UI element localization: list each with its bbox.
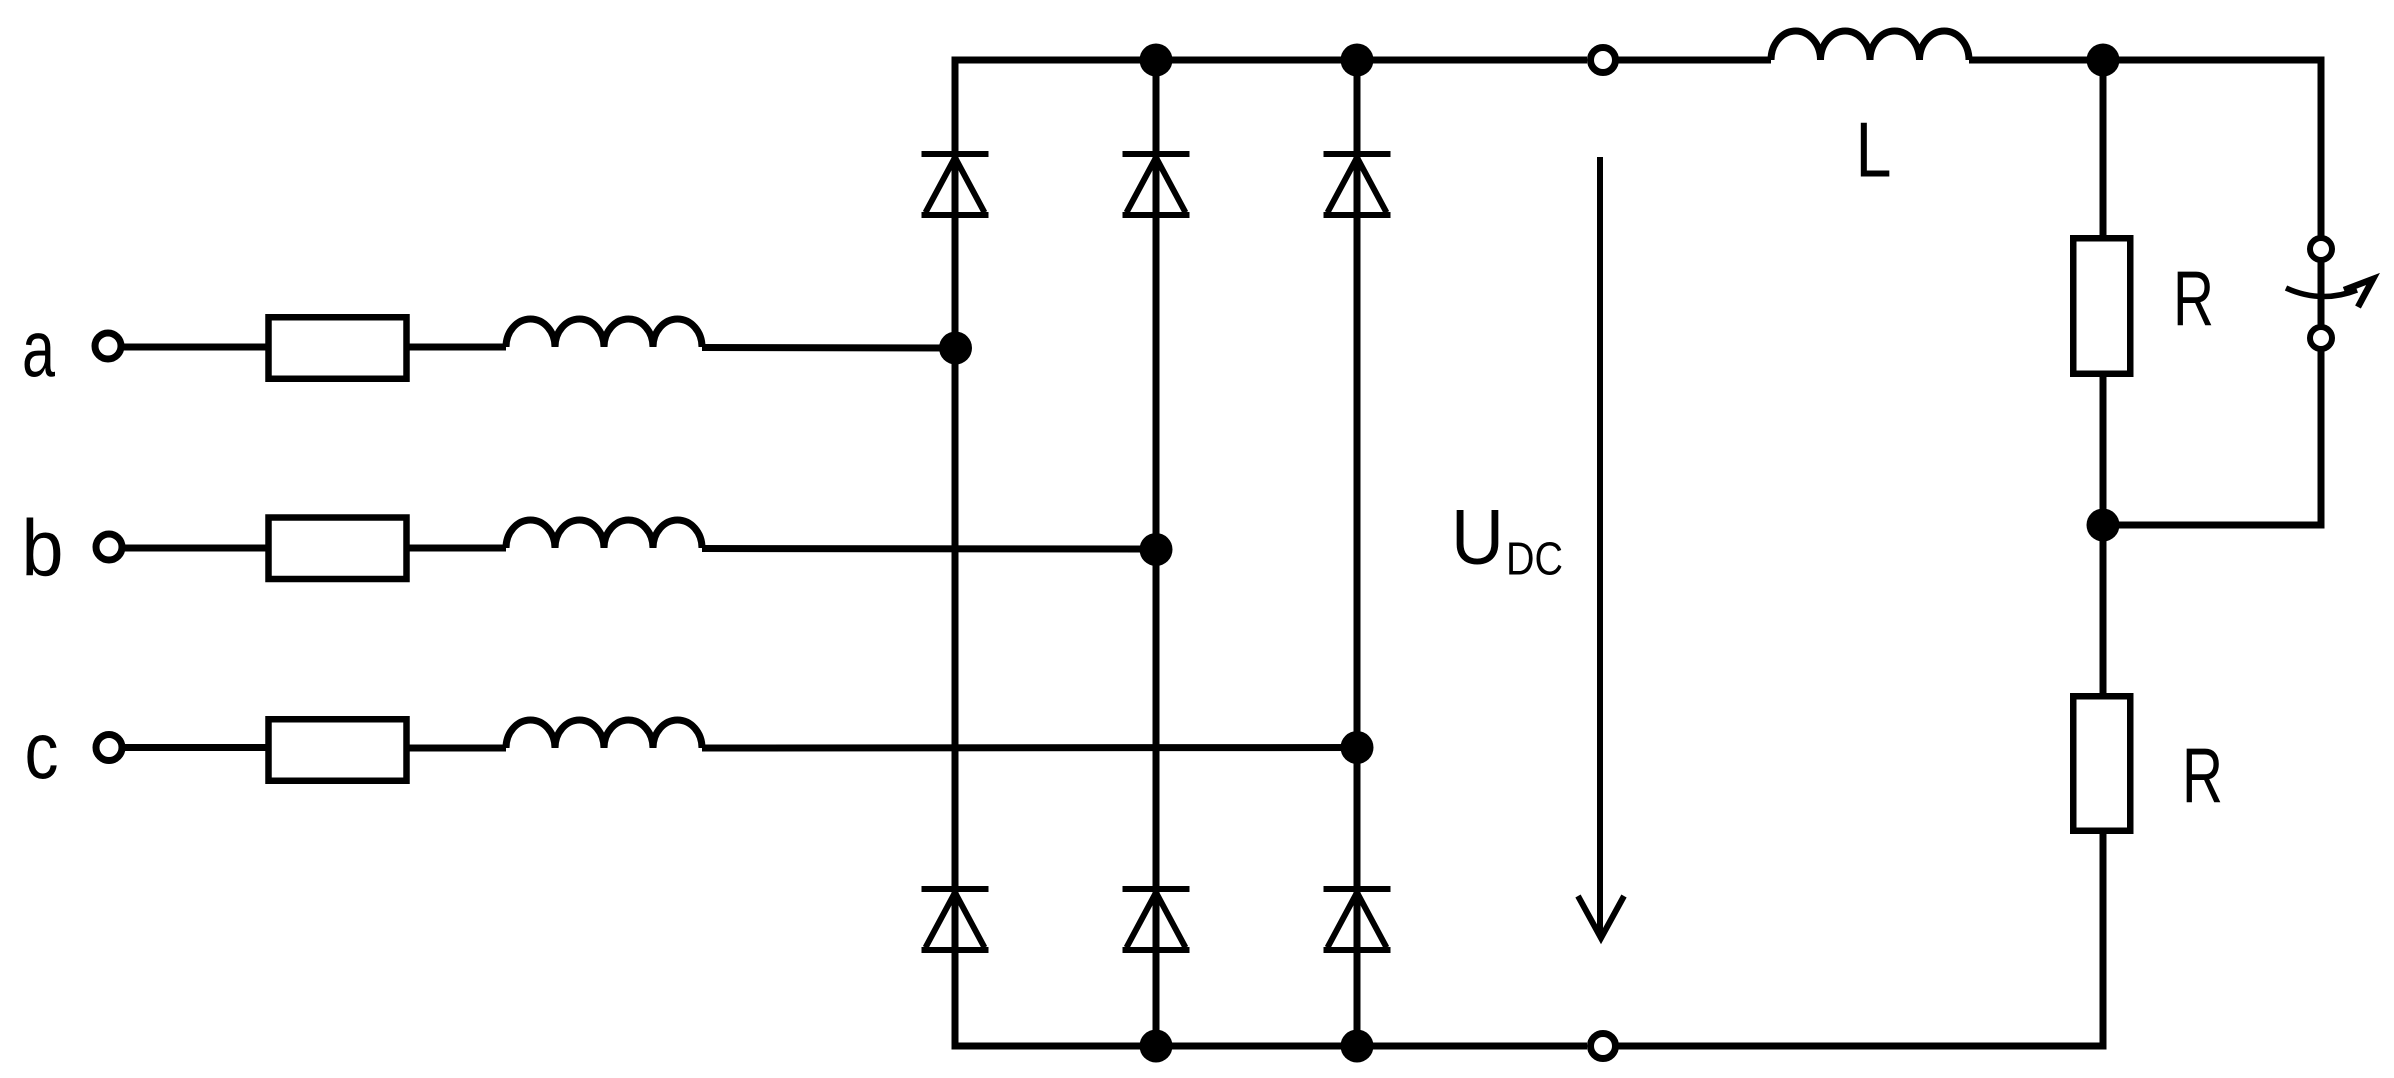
diode D5 — [1324, 154, 1391, 215]
svg-text:R: R — [2182, 732, 2223, 820]
node top rail leg2 — [1140, 44, 1173, 77]
bottom rail wire right — [1615, 1043, 2107, 1050]
node top rail load — [2087, 44, 2120, 77]
wire load bottom — [2100, 834, 2107, 1050]
diode D3 — [1123, 154, 1190, 215]
wire c2 — [407, 745, 506, 752]
diode D1 — [922, 154, 989, 215]
wire b2 — [407, 545, 506, 552]
node c junction — [1341, 731, 1374, 764]
terminal a — [95, 333, 121, 359]
wire load top — [2100, 60, 2107, 235]
switch contact upper — [2310, 238, 2332, 260]
svg-text:a: a — [22, 304, 55, 393]
resistor Rc — [269, 719, 407, 781]
bridge leg 1 wire — [952, 57, 959, 1050]
node load mid junction — [2087, 509, 2120, 542]
diode D6 — [1123, 889, 1190, 950]
terminal DC+ — [1591, 48, 1616, 73]
switch contact lower — [2310, 327, 2332, 349]
resistor Ra — [269, 317, 407, 379]
bridge leg 2 wire — [1153, 60, 1160, 1046]
wire b1 — [123, 545, 269, 552]
svg-text:U: U — [1451, 493, 1504, 581]
diode D2 — [1324, 889, 1391, 950]
node top rail leg3 — [1341, 44, 1374, 77]
resistor R1 — [2073, 238, 2130, 374]
resistor Rb — [269, 518, 407, 580]
node bottom rail leg2 — [1140, 1030, 1173, 1063]
top rail wire left — [952, 57, 1588, 64]
svg-text:c: c — [25, 706, 59, 795]
wire a2 — [407, 344, 506, 351]
wire c3 — [702, 744, 1357, 752]
arrow U_DC — [1578, 157, 1624, 938]
wire switch bottom — [2103, 522, 2325, 529]
svg-text:b: b — [22, 504, 64, 593]
wire b3 — [702, 545, 1156, 553]
svg-text:L: L — [1856, 106, 1892, 194]
node a junction — [939, 332, 972, 365]
wire c1 — [123, 744, 269, 751]
wire load mid — [2100, 377, 2107, 693]
svg-text:DC: DC — [1506, 533, 1563, 585]
resistor R2 — [2073, 696, 2130, 831]
terminal b — [96, 534, 122, 560]
diode D4 — [922, 889, 989, 950]
wire a3 — [702, 344, 955, 352]
inductor Lb — [506, 520, 702, 548]
inductor La — [506, 319, 702, 347]
terminal DC- — [1591, 1034, 1616, 1059]
top rail wire right — [1969, 57, 2325, 64]
inductor Lc — [506, 720, 702, 748]
switch arrowhead — [2344, 279, 2373, 307]
node bottom rail leg3 — [1341, 1030, 1374, 1063]
bridge leg 3 wire — [1354, 60, 1361, 1046]
svg-text:R: R — [2173, 255, 2214, 343]
top rail wire mid — [1615, 57, 1771, 64]
wire a1 — [122, 344, 269, 351]
terminal c — [96, 735, 122, 761]
wire switch vertical — [2318, 57, 2325, 529]
node b junction — [1140, 533, 1173, 566]
bottom rail wire left — [952, 1043, 1588, 1050]
switch rotation arc — [2286, 288, 2357, 297]
inductor L — [1771, 31, 1969, 60]
